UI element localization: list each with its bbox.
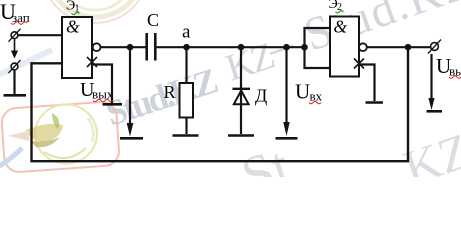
gate U1 (E1) AND-NOT xyxy=(62,17,92,78)
bar (Uvyh reference) xyxy=(120,137,143,140)
svg-text:C: C xyxy=(147,10,159,30)
bottom-left logo xyxy=(1,101,120,173)
wire (resistor to ground) xyxy=(185,118,187,135)
wire (node a to resistor) xyxy=(185,47,187,83)
wire (T2 to ground) xyxy=(13,70,15,94)
ground (source) xyxy=(4,94,27,97)
diode D (cathode bar) xyxy=(233,88,251,90)
svg-text:вых: вых xyxy=(92,87,114,102)
wire (diode branch) xyxy=(240,47,242,134)
gate U2 (E2) AND-NOT xyxy=(330,17,359,77)
red spell underline (Uvyh U1) xyxy=(93,99,113,102)
open-emitter mark U1 (X) xyxy=(87,57,97,67)
capacitor C xyxy=(145,33,148,61)
junction J3 (Uvh) xyxy=(283,44,290,51)
wire (diode junction to Uvh junction) xyxy=(241,46,287,48)
wire (U1 X-output to ground) xyxy=(92,65,112,104)
svg-text:a: a xyxy=(182,22,191,43)
arrow (Uvyh measure) xyxy=(127,123,134,137)
junction J5 (feedback) xyxy=(405,44,412,51)
svg-text:Д: Д xyxy=(255,86,267,106)
output bubble U2 xyxy=(359,43,367,51)
wire (node a to diode junction) xyxy=(187,46,242,48)
label U_zap xyxy=(0,0,30,25)
wire (right output drop) xyxy=(430,54,432,99)
wire (feedback loop to E1 input 2) xyxy=(32,47,409,161)
wire (U2 X-output to ground) xyxy=(359,65,375,102)
resistor R xyxy=(180,83,194,118)
ground (U2 X-output) xyxy=(366,101,384,104)
wire (U1 output to capacitor) xyxy=(101,46,146,48)
wire (Uvh branch) xyxy=(285,47,287,123)
ground (resistor) xyxy=(173,134,199,137)
svg-text:&: & xyxy=(66,17,80,37)
red spell underline (Uzap) xyxy=(11,22,27,25)
input terminal T1 (circle-slash) xyxy=(9,29,21,42)
arrow (right Uvyh) xyxy=(428,98,434,110)
diode D (triangle) xyxy=(234,91,249,105)
output terminal (circle-slash) xyxy=(428,40,441,54)
gate U1 (E1) label xyxy=(66,0,80,15)
wire (U2 output to terminal) xyxy=(367,46,431,48)
bar (Uvh reference) xyxy=(276,137,298,140)
red spell underline (Uvh) xyxy=(309,101,321,104)
svg-text:вых: вых xyxy=(449,64,461,79)
ground (diode) xyxy=(228,134,254,137)
wire (J4 to E2 bottom input) xyxy=(305,47,331,68)
green grammar underline (E2) xyxy=(336,11,344,13)
open-emitter mark U2 (X) xyxy=(354,59,364,69)
svg-text:&: & xyxy=(334,17,348,37)
red spell underline (right Uvyh) xyxy=(449,76,461,79)
svg-text:R: R xyxy=(164,82,176,102)
gate U2 (E2) label xyxy=(329,0,343,13)
label Uvyh (right) xyxy=(436,54,461,79)
bar (right Uvyh reference) xyxy=(427,110,443,113)
wire (T1 to gate E1 input 1) xyxy=(18,34,63,36)
top-left logo arcs xyxy=(43,0,147,23)
EMF arrow (source) xyxy=(14,39,16,52)
green grammar underline (E1) xyxy=(72,12,80,14)
output bubble U1 xyxy=(93,43,101,51)
wire (J4 to E2 top input) xyxy=(305,28,331,47)
svg-text:U: U xyxy=(295,80,310,104)
arrow (Uvh measure) xyxy=(283,122,289,136)
wire (to gate E2 inputs junction) xyxy=(287,46,305,48)
wire (capacitor to node a) xyxy=(157,46,187,48)
label Uvyh (U1) xyxy=(80,79,114,102)
junction J1 xyxy=(127,44,134,51)
input terminal T2 (circle-slash) xyxy=(9,60,21,73)
label Uvh xyxy=(295,80,323,104)
node a junction xyxy=(183,44,190,51)
ground (U1 X-output) xyxy=(103,103,123,106)
junction J4 (E2 inputs) xyxy=(301,44,308,51)
junction J2 (diode) xyxy=(238,44,245,51)
wire (J1 down to Uvyh arrow) xyxy=(129,47,131,124)
